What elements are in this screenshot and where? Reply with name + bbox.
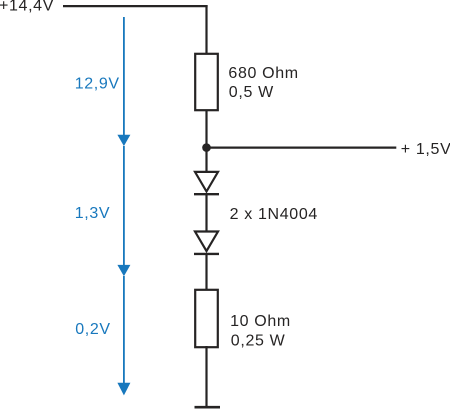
- svg-text:+ 1,5V: + 1,5V: [401, 141, 450, 158]
- value label 10 Ohm 0,25 W: [230, 313, 291, 350]
- resistor R2: [195, 290, 218, 347]
- node junction dot: [202, 143, 211, 152]
- label 0,2V: [75, 321, 111, 338]
- ground bar: [195, 406, 221, 409]
- wire vertical from corner down to R1: [205, 5, 207, 54]
- label 1,3V: [75, 205, 111, 222]
- wire from D1 to D2: [205, 194, 207, 231]
- svg-text:12,9V: 12,9V: [75, 75, 120, 92]
- label 12,9V: [75, 75, 120, 92]
- svg-text:0,25 W: 0,25 W: [231, 333, 286, 350]
- resistor R1: [195, 54, 218, 110]
- svg-text:2 x 1N4004: 2 x 1N4004: [230, 206, 318, 223]
- voltage arrow 1,3V segment: [117, 146, 130, 276]
- wire from R2 to ground: [205, 346, 207, 406]
- value label 2 x 1N4004: [230, 206, 318, 223]
- node +14,4V label: [0, 0, 54, 15]
- wire horizontal from node to +1,5V: [207, 147, 397, 149]
- wire top horizontal from +14,4V to corner: [63, 5, 208, 7]
- diode D1: [194, 172, 219, 194]
- wire from R1 bottom through node to D1: [205, 110, 207, 172]
- svg-text:10 Ohm: 10 Ohm: [230, 313, 291, 330]
- svg-text:1,3V: 1,3V: [75, 205, 111, 222]
- svg-text:0,5 W: 0,5 W: [229, 84, 274, 101]
- value label 680 Ohm 0,5 W: [228, 65, 298, 101]
- wire from D2 to R2: [205, 254, 207, 290]
- svg-text:0,2V: 0,2V: [75, 321, 111, 338]
- node + 1,5V label: [401, 141, 450, 158]
- voltage arrow 12,9V segment: [117, 17, 130, 146]
- diode D2: [194, 232, 219, 254]
- voltage arrow 0,2V segment: [117, 276, 130, 395]
- svg-text:680 Ohm: 680 Ohm: [228, 65, 298, 82]
- svg-text:+14,4V: +14,4V: [0, 0, 54, 15]
